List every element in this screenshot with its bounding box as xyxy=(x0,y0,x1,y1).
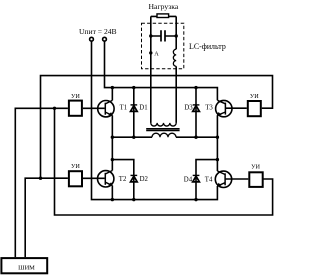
svg-text:D3: D3 xyxy=(184,104,193,111)
wire PWM ch1 to upper-left УИ xyxy=(15,108,68,257)
driver box УИ lower-right xyxy=(249,172,262,187)
diode D2 xyxy=(131,175,138,182)
wire upper-left УИ to T1 base xyxy=(83,107,105,109)
diode D4 xyxy=(193,175,200,182)
PWM controller box ШИМ xyxy=(1,258,47,273)
svg-text:D2: D2 xyxy=(140,176,149,183)
transformer TR primary winding (top, 4 arcs) xyxy=(151,123,176,126)
svg-text:Uпит = 24В: Uпит = 24В xyxy=(79,27,117,36)
capacitor C wires xyxy=(151,35,176,37)
svg-text:УИ: УИ xyxy=(250,93,259,100)
svg-text:Нагрузка: Нагрузка xyxy=(149,2,179,11)
svg-text:D1: D1 xyxy=(139,104,147,111)
svg-text:LC-фильтр: LC-фильтр xyxy=(189,42,226,51)
junction dot D4 branch xyxy=(216,158,219,161)
junction dot bottom rail D2 xyxy=(132,198,135,201)
driver box УИ upper-left xyxy=(69,101,82,116)
wire lower-right УИ to T4 base xyxy=(225,178,248,180)
wire T3 emitter to midrail to T4 collector xyxy=(216,115,218,171)
junction dot midrail D1 xyxy=(132,136,135,139)
junction dot top rail D3 xyxy=(194,86,197,89)
supply terminal right xyxy=(103,37,107,41)
diode D1 xyxy=(131,105,138,112)
wire T2 emitter to bottom rail xyxy=(111,186,113,200)
junction dot cap right xyxy=(175,34,178,37)
svg-text:Т3: Т3 xyxy=(205,104,213,111)
transistor T1 xyxy=(98,100,114,117)
wire T1 emitter to midrail xyxy=(111,115,113,137)
supply terminal left xyxy=(90,37,94,41)
junction dot midrail left xyxy=(111,136,114,139)
junction dot top rail T1 collector xyxy=(111,86,114,89)
svg-text:УИ: УИ xyxy=(71,163,80,170)
svg-text:ШИМ: ШИМ xyxy=(18,264,35,271)
wire midrail left xyxy=(112,136,152,138)
junction dot midrail D3 xyxy=(194,136,197,139)
node A dot xyxy=(149,51,152,54)
capacitor C plates xyxy=(161,30,165,41)
junction dot bottom rail D4 xyxy=(194,198,197,201)
wire D4 branch xyxy=(196,160,217,200)
wire PWM ch2 to lower-left УИ xyxy=(25,178,68,257)
svg-text:А: А xyxy=(154,50,159,57)
transformer TR core xyxy=(146,129,179,131)
svg-text:УИ: УИ xyxy=(71,93,80,100)
transistor T3 xyxy=(216,100,232,117)
wire lower-left УИ to T2 base xyxy=(83,177,105,179)
junction dot ch2 branch xyxy=(39,177,42,180)
wire T1 collector vertical xyxy=(111,88,113,101)
wire load left vertical xyxy=(150,16,152,123)
wire upper-right УИ to T3 base xyxy=(225,107,246,109)
resistor load (Нагрузка) xyxy=(151,14,176,18)
wire ch2 routing up over top to upper-right УИ xyxy=(41,76,273,179)
driver box УИ lower-left xyxy=(69,171,82,186)
wire load right vertical lower xyxy=(175,66,177,123)
svg-text:Т2: Т2 xyxy=(119,176,127,183)
wire D2 branch xyxy=(112,160,133,200)
wire D1 branch xyxy=(133,88,135,138)
transformer TR secondary winding (bottom, 3 arcs) xyxy=(152,133,176,137)
transistor T4 xyxy=(215,171,231,188)
transistor T2 xyxy=(98,171,114,188)
diode D3 xyxy=(193,105,200,112)
junction dot cap left xyxy=(149,34,152,37)
junction dot D2 branch xyxy=(111,158,114,161)
svg-text:Т4: Т4 xyxy=(205,176,213,183)
junction dot bottom rail T2 emitter xyxy=(111,198,114,201)
driver box УИ upper-right xyxy=(248,101,261,116)
svg-text:УИ: УИ xyxy=(251,163,260,170)
wire midrail to T2 collector xyxy=(111,137,113,170)
junction dot ch1 branch xyxy=(53,107,56,110)
wire midrail right xyxy=(176,136,217,138)
inductor L (3 arcs bulging left) xyxy=(173,49,176,66)
wire load right vertical upper xyxy=(175,16,177,49)
svg-text:Т1: Т1 xyxy=(120,104,128,111)
junction dot top rail D1 xyxy=(132,86,135,89)
wire positive rail: right supply down, top rail, down to T3 collector xyxy=(105,41,218,100)
wire D3 branch xyxy=(195,88,197,138)
wire negative rail: left supply down, bottom rail, up to T4 emitter xyxy=(92,41,218,199)
wire ch1 routing down along bottom to lower-right УИ xyxy=(55,108,273,215)
svg-text:D4: D4 xyxy=(184,176,193,183)
junction dot midrail right xyxy=(216,136,219,139)
LC filter dashed box xyxy=(142,23,184,69)
